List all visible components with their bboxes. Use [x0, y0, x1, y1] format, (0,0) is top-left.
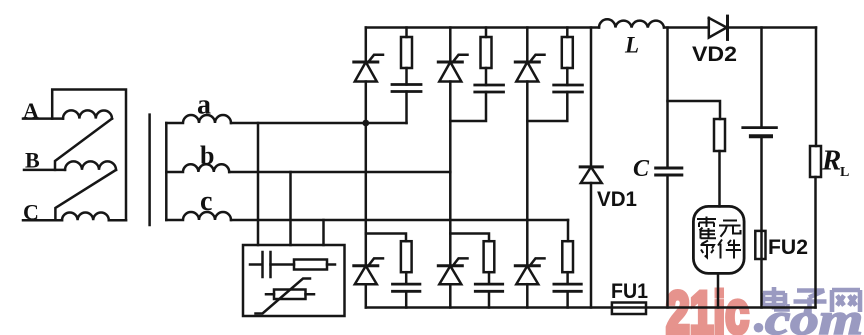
svg-text:L: L: [624, 33, 639, 58]
snubber R3: [566, 28, 569, 38]
snubber R1: [405, 28, 408, 38]
hall char 霍: [697, 217, 716, 239]
wire phase B primary: [24, 169, 65, 172]
wire delta B-C: [55, 170, 116, 220]
fuse FU1: [612, 303, 646, 315]
diode VD2: [709, 18, 727, 38]
svg-text:C: C: [633, 156, 650, 182]
snubber R5: [450, 234, 489, 242]
winding primary A: [63, 110, 112, 118]
svg-text:FU1: FU1: [611, 280, 648, 303]
resistor suppressor: [294, 260, 327, 270]
wire delta A-B: [55, 119, 112, 170]
wire secondary common rail: [165, 123, 168, 220]
thyristor V1: [354, 61, 378, 64]
snubber R2: [485, 28, 488, 38]
wire hall branch: [668, 101, 721, 119]
battery plates: [743, 126, 777, 129]
svg-text:R: R: [821, 145, 841, 177]
snubber R6: [567, 220, 570, 241]
thyristor V6: [515, 264, 539, 267]
capacitor C column: [666, 28, 669, 308]
winding primary C: [62, 212, 109, 220]
svg-text:L: L: [840, 165, 849, 180]
wire hall to bus: [717, 273, 720, 307]
thyristor V5 column: [449, 172, 452, 308]
wire tap c to suppressor: [322, 220, 325, 245]
thyristor V1 column: [365, 28, 368, 124]
wire phase b: [229, 171, 450, 174]
svg-text:c: c: [200, 186, 212, 217]
svg-text:FU2: FU2: [768, 236, 808, 259]
thyristor V5: [438, 264, 462, 267]
hall char 尔: [701, 241, 715, 258]
svg-text:a: a: [197, 90, 211, 121]
wire phase A primary: [23, 117, 63, 120]
wire RC inner right: [327, 263, 335, 266]
hall char 元: [719, 221, 741, 237]
thyristor V3: [515, 61, 539, 64]
hall sensor box: [693, 206, 744, 273]
wire primary top link: [52, 90, 126, 221]
thyristor V2: [438, 61, 462, 64]
wire RC inner mid: [271, 263, 295, 266]
wire varistor slash: [256, 279, 311, 314]
load RL column: [814, 28, 817, 308]
suppressor box: [243, 245, 345, 316]
hall char 件: [718, 240, 741, 259]
wire top bus: [366, 26, 599, 29]
winding primary B: [65, 161, 116, 170]
snubber C6: [566, 272, 569, 284]
resistor hall: [714, 119, 725, 151]
wire primary C to box: [109, 219, 126, 222]
wire VD2 to right: [728, 26, 817, 29]
wire resistor to hall: [718, 151, 721, 206]
wire tap b to suppressor: [289, 172, 292, 245]
snubber C3: [566, 68, 569, 85]
snubber C4: [405, 272, 408, 284]
wire tap a to suppressor: [257, 123, 260, 245]
winding secondary b: [166, 164, 229, 172]
watermark 21ic: [666, 280, 863, 335]
thyristor V6 column: [526, 284, 529, 307]
svg-text:VD2: VD2: [692, 43, 737, 66]
battery column: [760, 28, 763, 128]
wire bottom bus: [366, 306, 816, 309]
thyristor V4: [354, 264, 378, 267]
winding secondary c: [166, 212, 231, 220]
wire varistor leads: [266, 293, 314, 296]
svg-text:b: b: [200, 141, 214, 170]
fuse FU2: [755, 231, 765, 259]
wire phase c: [231, 219, 568, 222]
transformer core: [148, 115, 151, 225]
diode VD1: [580, 165, 602, 168]
diode VD1 column: [590, 28, 593, 308]
snubber R4: [366, 234, 406, 242]
wire phase a: [231, 122, 407, 125]
thyristor V2 column: [449, 28, 452, 173]
inductor L: [599, 19, 664, 27]
capacitor C: [656, 168, 682, 175]
snubber C1: [405, 68, 408, 85]
snubber C2: [485, 68, 488, 85]
thyristor V4 column: [365, 123, 368, 308]
hall sensor text 霍元/尔件: [697, 217, 741, 259]
thyristor V3 column: [526, 28, 529, 266]
wire phase C primary: [23, 219, 62, 222]
watermark dot: [754, 323, 764, 333]
snubber C5: [488, 272, 491, 284]
watermark char 电: [763, 287, 788, 310]
wire RC inner left: [250, 263, 262, 266]
varistor RV: [274, 290, 306, 300]
resistor RL: [810, 146, 821, 177]
watermark char 网: [832, 290, 860, 312]
node phase a junction: [362, 120, 369, 127]
capacitor suppressor: [263, 252, 271, 277]
winding secondary a: [166, 115, 231, 123]
wire L to VD2: [664, 26, 709, 29]
watermark char 子: [794, 291, 827, 312]
svg-text:VD1: VD1: [597, 188, 637, 211]
